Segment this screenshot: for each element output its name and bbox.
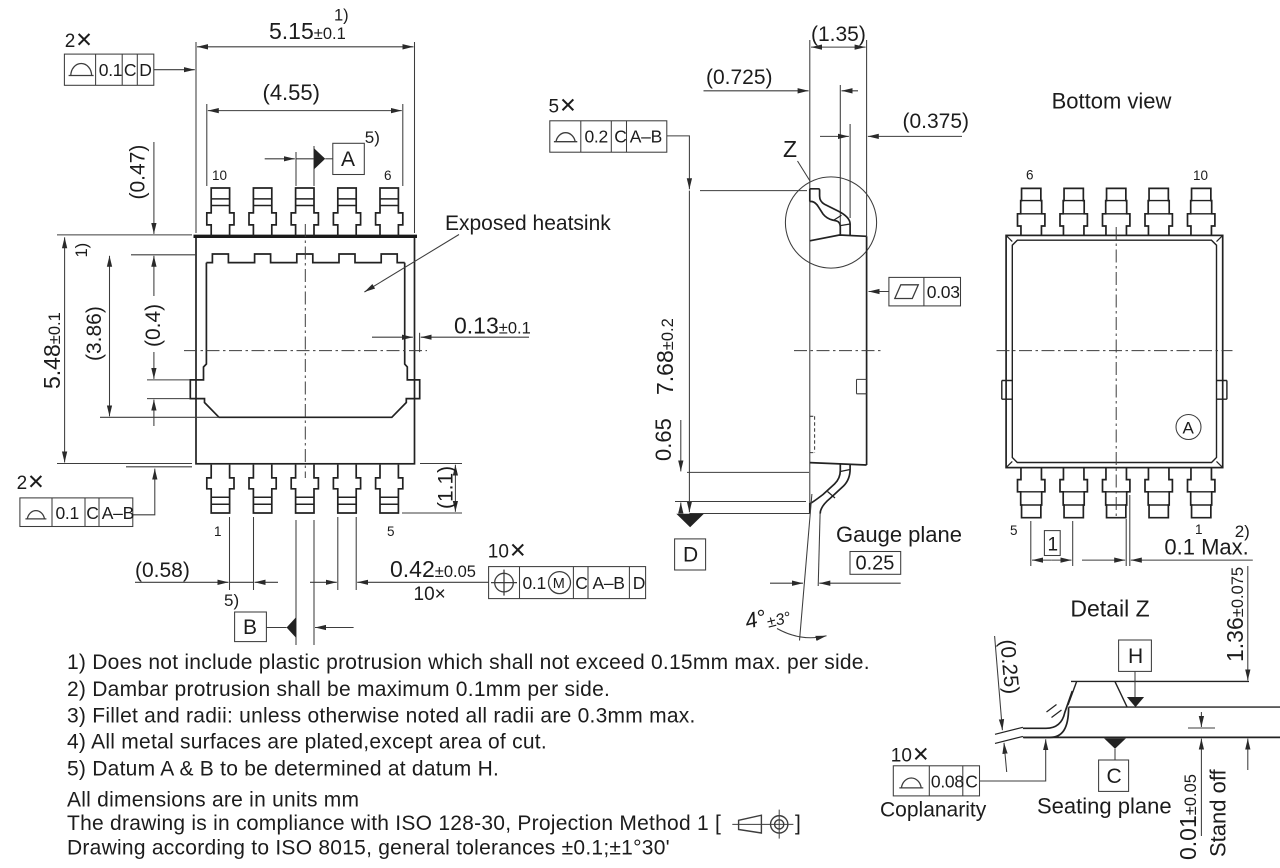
svg-text:10✕: 10✕ [488,540,527,563]
svg-text:0.13±0.1: 0.13±0.1 [454,313,531,339]
svg-text:1): 1) [73,243,91,258]
svg-text:2✕: 2✕ [65,29,93,52]
svg-text:0.65: 0.65 [651,418,676,461]
svg-text:Drawing according to ISO 8015,: Drawing according to ISO 8015, general t… [67,837,670,860]
svg-text:H: H [1128,645,1143,668]
svg-text:10: 10 [1193,168,1208,183]
svg-text:Gauge plane: Gauge plane [836,522,962,547]
svg-text:5: 5 [387,524,395,539]
svg-text:5✕: 5✕ [549,95,577,118]
svg-text:6: 6 [384,168,392,183]
svg-text:Stand off: Stand off [1206,768,1231,857]
svg-text:0.1: 0.1 [523,573,546,593]
svg-text:D: D [683,544,698,567]
svg-text:(0.375): (0.375) [903,110,970,133]
svg-text:C: C [124,60,136,80]
svg-text:10: 10 [212,168,227,183]
svg-text:(3.86): (3.86) [83,306,106,361]
svg-text:B: B [243,616,257,639]
svg-text:(1.35): (1.35) [811,23,866,46]
svg-text:4) All metal surfaces are plat: 4) All metal surfaces are plated,except … [67,731,547,754]
svg-text:C: C [86,503,98,523]
svg-text:Exposed heatsink: Exposed heatsink [445,212,611,235]
svg-text:D: D [633,573,645,593]
svg-text:1) Does not include plastic pr: 1) Does not include plastic protrusion w… [67,651,870,674]
svg-text:(0.725): (0.725) [706,66,773,89]
svg-text:A–B: A–B [630,127,662,147]
svg-text:(0.25): (0.25) [995,638,1023,695]
svg-text:1: 1 [1048,535,1059,556]
svg-text:6: 6 [1026,168,1034,183]
svg-text:5: 5 [1010,523,1018,538]
svg-text:C: C [1107,765,1122,788]
svg-text:1.36±0.075: 1.36±0.075 [1222,567,1248,662]
svg-text:0.01±0.05: 0.01±0.05 [1175,774,1201,860]
svg-text:0.25: 0.25 [856,553,895,575]
svg-text:]: ] [795,812,801,835]
svg-text:A: A [1183,419,1195,438]
svg-text:0.08: 0.08 [931,772,964,792]
svg-text:0.2: 0.2 [585,127,608,147]
svg-text:0.1: 0.1 [99,60,122,80]
svg-text:0.03: 0.03 [927,282,960,302]
svg-text:5.48±0.1: 5.48±0.1 [39,312,65,389]
svg-text:7.68±0.2: 7.68±0.2 [652,318,678,395]
svg-text:C: C [614,127,626,147]
svg-text:(0.58): (0.58) [135,559,190,582]
svg-text:(0.4): (0.4) [142,304,165,347]
svg-text:C: C [575,573,587,593]
svg-text:Seating plane: Seating plane [1037,794,1172,819]
svg-text:5) Datum A & B to be determine: 5) Datum A & B to be determined at datum… [67,758,499,781]
svg-text:4°±3°: 4°±3° [742,599,793,637]
svg-text:A: A [341,148,355,171]
svg-text:A–B: A–B [102,503,134,523]
svg-text:The drawing is in compliance w: The drawing is in compliance with ISO 12… [67,812,721,835]
svg-text:2) Dambar protrusion shall be: 2) Dambar protrusion shall be maximum 0.… [67,678,610,701]
svg-text:(0.47): (0.47) [127,145,150,200]
svg-text:3) Fillet and radii: unless ot: 3) Fillet and radii: unless otherwise no… [67,705,696,728]
svg-text:Coplanarity: Coplanarity [880,799,987,822]
svg-text:D: D [139,60,151,80]
svg-text:M: M [553,576,565,592]
svg-text:Z: Z [783,136,797,162]
svg-text:A–B: A–B [593,573,625,593]
svg-text:1): 1) [334,7,349,25]
svg-text:10×: 10× [414,584,446,605]
svg-text:1: 1 [214,524,222,539]
svg-text:0.42±0.05: 0.42±0.05 [390,556,476,582]
svg-text:(1.1): (1.1) [435,466,458,509]
svg-text:All dimensions are in units mm: All dimensions are in units mm [67,789,359,812]
svg-text:5): 5) [365,128,380,147]
svg-text:2✕: 2✕ [17,471,45,494]
svg-text:Detail Z: Detail Z [1070,596,1149,622]
svg-text:10✕: 10✕ [891,744,930,767]
svg-text:0.1: 0.1 [56,503,79,523]
svg-text:(4.55): (4.55) [263,80,320,105]
svg-text:2): 2) [1235,522,1250,541]
svg-text:C: C [965,772,977,792]
svg-text:5): 5) [224,591,239,610]
svg-text:Bottom view: Bottom view [1052,89,1172,114]
